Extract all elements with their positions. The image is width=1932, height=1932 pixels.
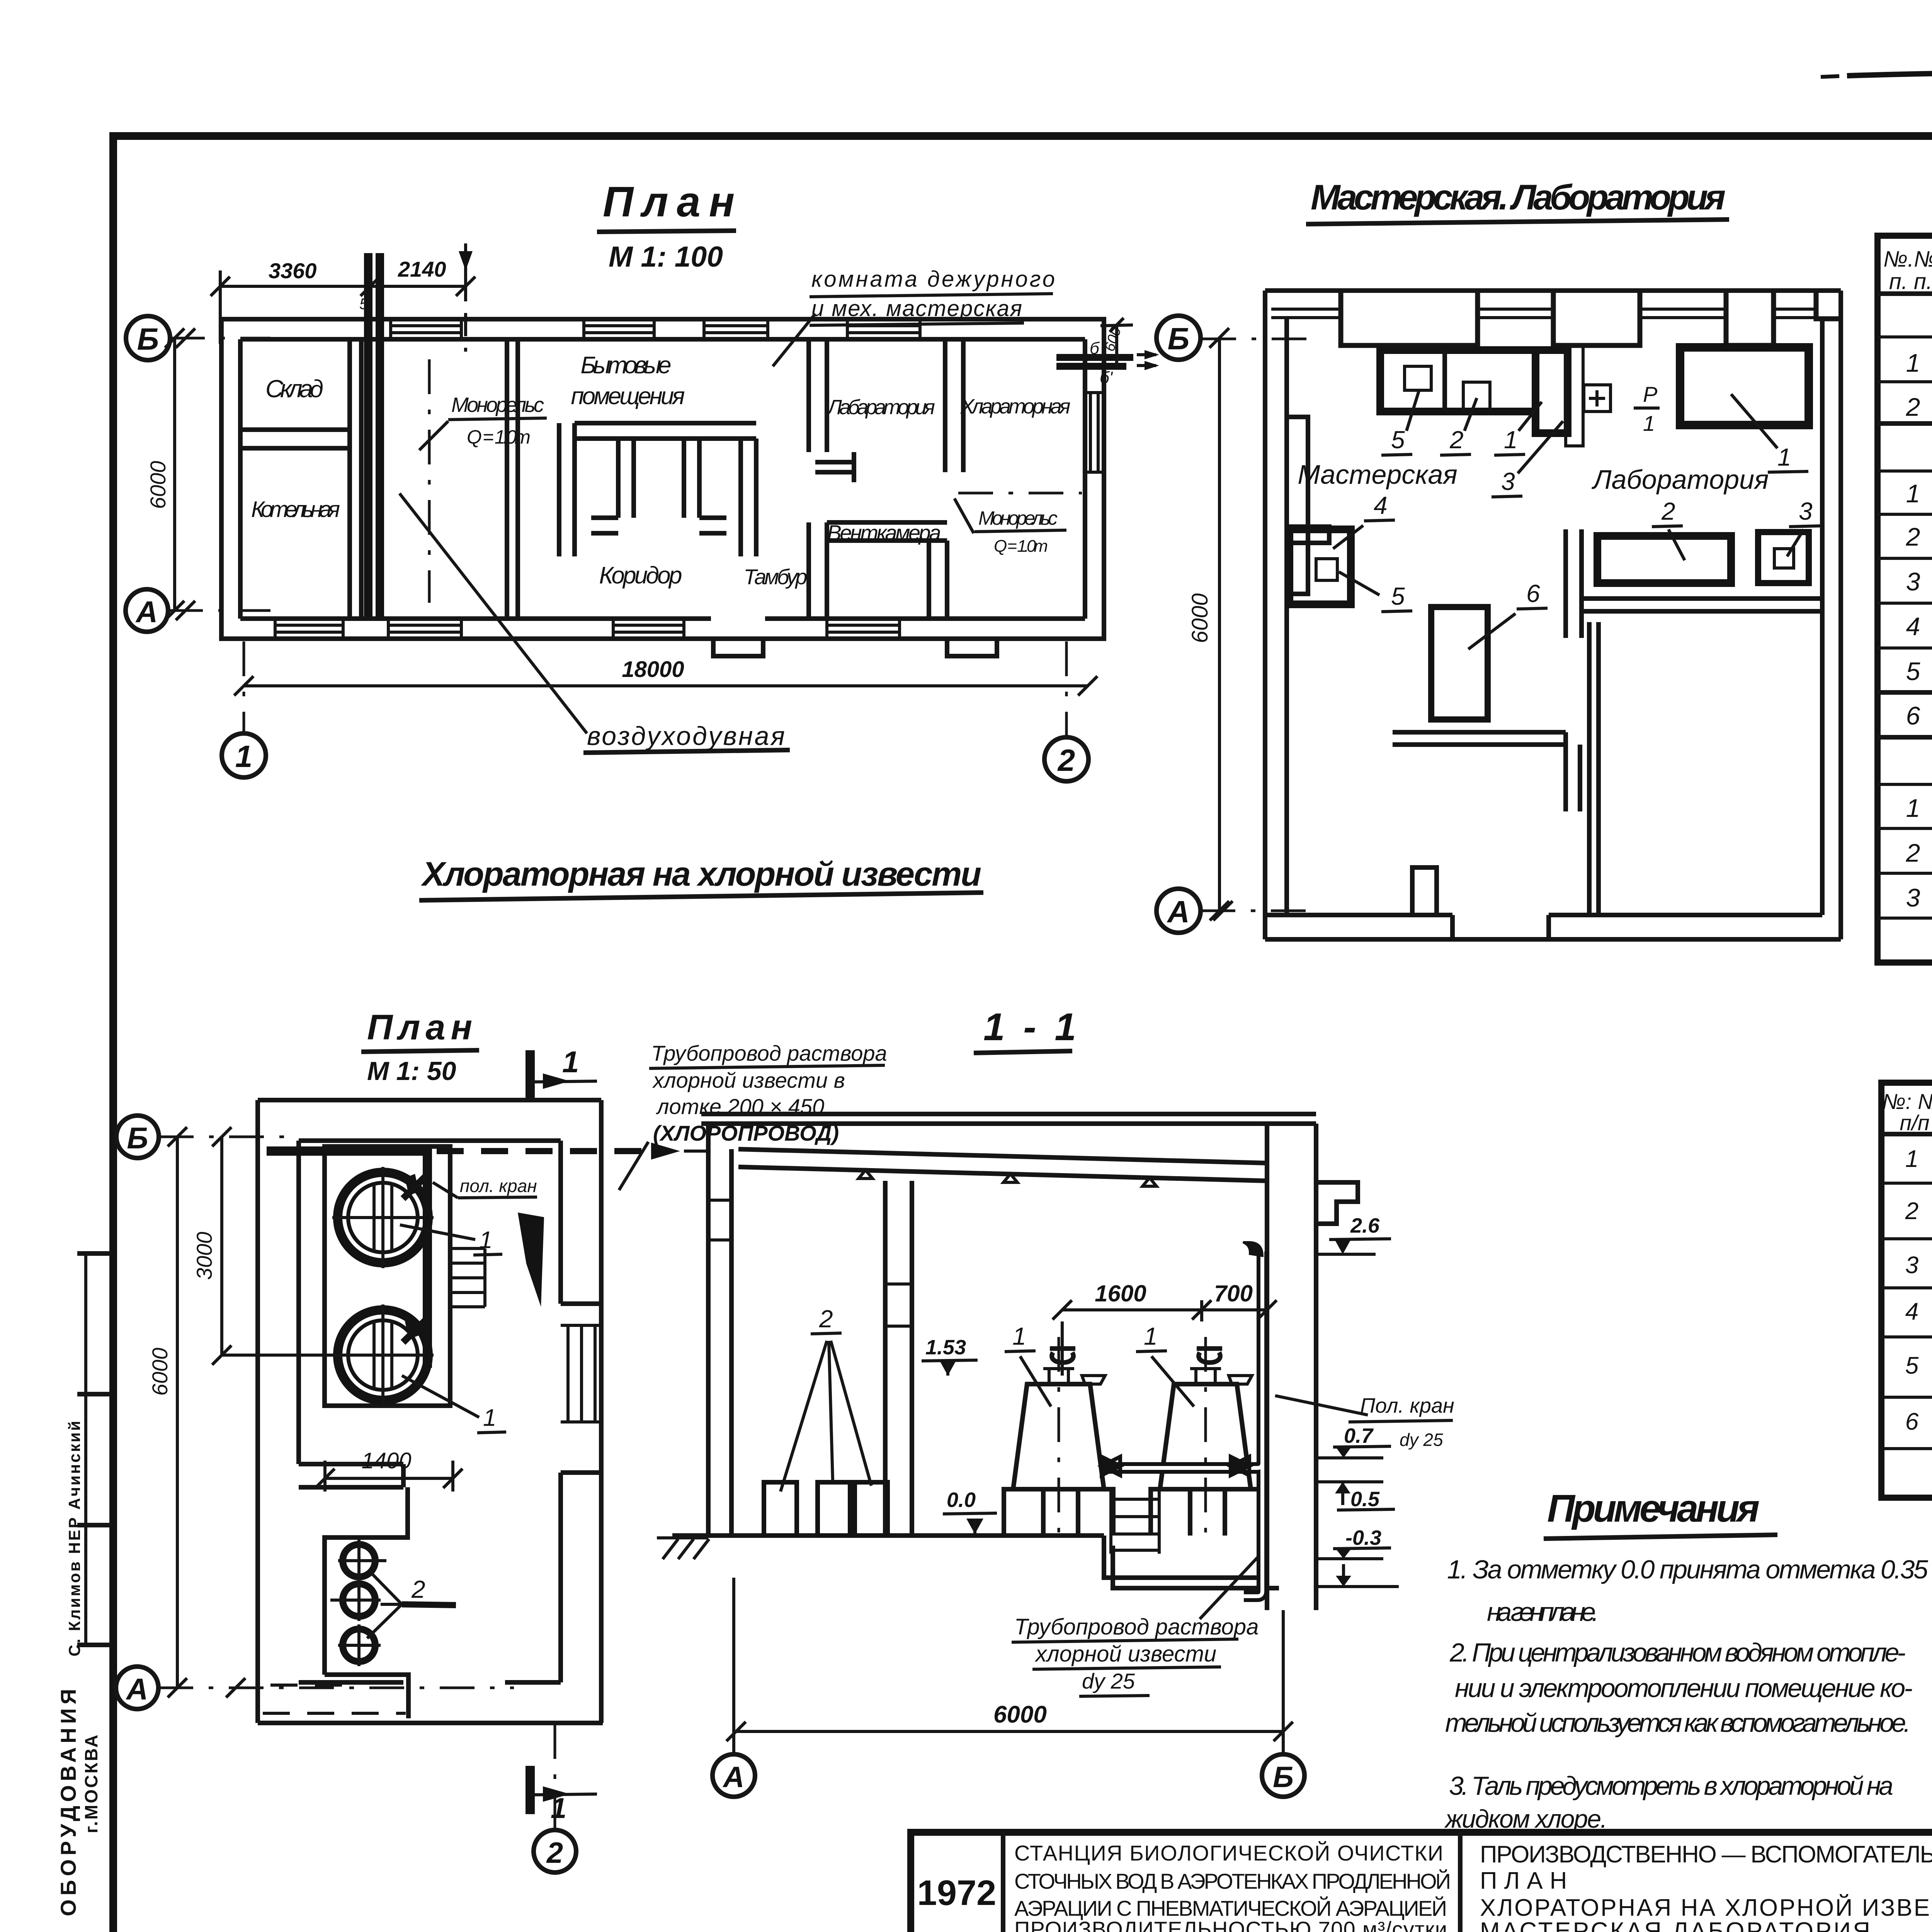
svg-text:нии и электроотоплении пом: нии и электроотоплении помещение ко- xyxy=(1455,1673,1913,1703)
svg-text:2: 2 xyxy=(1906,838,1920,867)
axis A circle xyxy=(1156,889,1201,933)
top wall xyxy=(258,1100,601,1141)
svg-text:1: 1 xyxy=(1777,443,1791,471)
svg-text:1: 1 xyxy=(551,1792,566,1824)
svg-text:1: 1 xyxy=(483,1405,496,1431)
left wall xyxy=(708,1124,731,1536)
svg-text:б: б xyxy=(1090,339,1100,358)
svg-text:хлорной извести в: хлорной извести в xyxy=(652,1068,845,1092)
svg-text:4: 4 xyxy=(1905,1298,1918,1325)
entrance porches xyxy=(713,639,763,656)
svg-text:Мастерская: Мастерская xyxy=(1298,459,1458,490)
horizontals xyxy=(1881,1132,1932,1136)
svg-text:СТАНЦИЯ БИОЛОГИЧЕСКОЙ ОЧИСТК: СТАНЦИЯ БИОЛОГИЧЕСКОЙ ОЧИСТКИ xyxy=(1014,1841,1443,1865)
mid wall xyxy=(299,1464,403,1487)
svg-text:А: А xyxy=(1167,895,1190,929)
dim 1600 700 xyxy=(1062,1308,1267,1311)
svg-text:№.№: №.№ xyxy=(1883,247,1932,272)
tank 1 top fittings xyxy=(1043,1369,1074,1384)
svg-text:1: 1 xyxy=(1643,411,1655,435)
svg-text:2: 2 xyxy=(411,1575,425,1603)
top wall windows xyxy=(391,321,920,338)
lab table 2 xyxy=(1597,536,1731,583)
building inner wall lines xyxy=(240,337,1085,342)
svg-text:ПРОИЗВОДИТЕЛЬНОСТЬЮ 700 м³/: ПРОИЗВОДИТЕЛЬНОСТЬЮ 700 м³/сутки xyxy=(1014,1917,1447,1932)
axis circles xyxy=(732,1578,735,1754)
svg-text:Трубопровод раствора: Трубопровод раствора xyxy=(1014,1614,1259,1639)
tank 2 xyxy=(338,1310,428,1400)
top smudge xyxy=(1847,72,1932,78)
svg-text:6: 6 xyxy=(1906,701,1920,730)
svg-text:3: 3 xyxy=(1905,1252,1918,1279)
steps between pedestals xyxy=(1111,1490,1159,1554)
masterskaya bottom wall xyxy=(1393,732,1566,745)
svg-text:Примечания: Примечания xyxy=(1547,1487,1760,1530)
svg-text:Тамбур: Тамбур xyxy=(744,565,808,589)
window in right wall xyxy=(1087,393,1102,472)
section flag 1 bottom xyxy=(526,1766,535,1814)
svg-text:Q = 1.0т: Q = 1.0т xyxy=(467,426,531,448)
axis B xyxy=(116,1116,159,1158)
section flag 1 top xyxy=(526,1050,535,1099)
interior column xyxy=(885,1181,912,1536)
svg-text:А: А xyxy=(723,1761,745,1794)
svg-text:3: 3 xyxy=(1799,497,1813,525)
svg-text:3. Таль предусмотреть в: 3. Таль предусмотреть в хлораторной на xyxy=(1449,1771,1893,1801)
right axis B circle xyxy=(1156,316,1201,360)
svg-text:А: А xyxy=(135,595,158,629)
svg-text:6000: 6000 xyxy=(148,1348,172,1396)
window right wall lower xyxy=(561,1325,601,1422)
svg-text:СТОЧНЫХ ВОД В АЭРОТЕНКАХ ПР: СТОЧНЫХ ВОД В АЭРОТЕНКАХ ПРОДЛЕННОЙ xyxy=(1014,1869,1451,1893)
svg-text:1: 1 xyxy=(1906,794,1920,822)
wall above ventkamera xyxy=(827,522,947,541)
outer walls xyxy=(1265,288,1841,293)
axis A xyxy=(116,1667,158,1709)
vertical dim 6000 xyxy=(1218,338,1221,911)
svg-text:6000: 6000 xyxy=(1187,593,1213,643)
equipment: verstak xyxy=(1380,350,1536,412)
riser pipes section flag 5 xyxy=(368,253,380,617)
svg-text:1600: 1600 xyxy=(1095,1281,1146,1306)
valves on pipe xyxy=(1102,1457,1120,1475)
svg-text:МАСТЕРСКАЯ ЛАБОРАТОРИ: МАСТЕРСКАЯ ЛАБОРАТОРИЯ xyxy=(1480,1918,1870,1932)
dim 6000 xyxy=(736,1730,1283,1733)
right wall xyxy=(1267,1124,1316,1610)
bottom wall xyxy=(1265,937,1841,942)
svg-text:2140: 2140 xyxy=(398,257,446,281)
svg-text:Q = 1.0т: Q = 1.0т xyxy=(994,537,1048,556)
grid circle 2 xyxy=(554,1724,556,1830)
svg-text:6000: 6000 xyxy=(146,461,170,509)
tank 1 trapezoid xyxy=(1013,1384,1104,1489)
tanks platform xyxy=(325,1146,450,1406)
svg-text:Хлораторная на хлорной из: Хлораторная на хлорной извести xyxy=(420,855,981,893)
svg-text:г.МОСКВА: г.МОСКВА xyxy=(81,1733,101,1833)
svg-text:ХЛОРАТОРНАЯ НА ХЛОРНОЙ: ХЛОРАТОРНАЯ НА ХЛОРНОЙ ИЗВЕСТИ xyxy=(1480,1894,1932,1921)
dim 3360 / 2140 xyxy=(220,285,466,288)
svg-text:№: №:: №: №: xyxy=(1882,1089,1932,1114)
svg-text:1.53: 1.53 xyxy=(925,1336,966,1359)
svg-text:2: 2 xyxy=(819,1305,833,1333)
svg-text:0.7: 0.7 xyxy=(1344,1424,1374,1447)
svg-text:2. При централизованном вод: 2. При централизованном водяном отопле- xyxy=(1449,1638,1906,1667)
grid line 2 xyxy=(1065,641,1068,737)
tank 1 centerline xyxy=(1058,1337,1060,1533)
top wall piers xyxy=(1341,291,1841,345)
svg-text:6000: 6000 xyxy=(993,1701,1047,1728)
svg-text:4: 4 xyxy=(1374,492,1388,519)
svg-text:п/п: п/п xyxy=(1900,1111,1929,1135)
dashed continuation right with arrow xyxy=(437,1148,657,1154)
svg-text:6: 6 xyxy=(1905,1408,1919,1435)
svg-text:комната дежурного: комната дежурного xyxy=(811,267,1055,292)
svg-text:18000: 18000 xyxy=(622,657,684,682)
svg-text:1: 1 xyxy=(235,739,253,774)
svg-text:М 1: 50: М 1: 50 xyxy=(367,1056,456,1086)
barrels xyxy=(764,1482,888,1536)
tank 2 trapezoid xyxy=(1160,1384,1251,1489)
tank 1 xyxy=(338,1172,428,1263)
barrels xyxy=(343,1544,375,1662)
svg-text:Б: Б xyxy=(137,322,159,356)
svg-text:Венткамера: Венткамера xyxy=(827,520,941,545)
bottom wall xyxy=(258,1682,603,1723)
svg-text:3: 3 xyxy=(1501,468,1515,495)
svg-text:п. п.: п. п. xyxy=(1889,269,1932,294)
svg-text:Коридор: Коридор xyxy=(599,562,682,589)
svg-text:б': б' xyxy=(1100,368,1113,387)
svg-text:Монорельс: Монорельс xyxy=(978,507,1058,529)
svg-text:хлорной извести: хлорной извести xyxy=(1034,1641,1216,1667)
svg-text:5: 5 xyxy=(1905,1352,1919,1379)
dim 18000 xyxy=(244,684,1088,687)
svg-text:1: 1 xyxy=(1906,479,1920,508)
toilets block walls xyxy=(559,423,756,556)
plus box xyxy=(1584,385,1611,412)
svg-text:Лаборатория: Лаборатория xyxy=(1592,464,1769,495)
vertical dims xyxy=(220,1137,223,1355)
svg-text:700: 700 xyxy=(1214,1281,1253,1306)
svg-text:1: 1 xyxy=(1012,1322,1026,1350)
svg-text:и мех. мастерская: и мех. мастерская xyxy=(811,296,1022,321)
interior wall B (right of vozduhoduvnaya) xyxy=(507,339,518,619)
svg-text:1: 1 xyxy=(1906,349,1920,377)
svg-text:А: А xyxy=(126,1672,148,1706)
svg-text:Б: Б xyxy=(1273,1761,1294,1794)
svg-text:2: 2 xyxy=(1057,743,1075,777)
svg-text:1: 1 xyxy=(1905,1146,1918,1172)
svg-text:2.6: 2.6 xyxy=(1350,1214,1380,1237)
svg-text:3000: 3000 xyxy=(192,1232,216,1280)
svg-text:2: 2 xyxy=(1906,522,1920,551)
svg-text:ПЛАН: ПЛАН xyxy=(1480,1867,1574,1894)
pit xyxy=(1104,1536,1267,1578)
left margin stamp xyxy=(56,1253,111,1916)
svg-text:План: План xyxy=(367,1008,478,1047)
svg-text:dy 25: dy 25 xyxy=(1400,1430,1443,1450)
pipe runs xyxy=(267,1151,427,1368)
svg-text:жидком хлоре.: жидком хлоре. xyxy=(1444,1804,1607,1833)
svg-text:dy 25: dy 25 xyxy=(1082,1669,1135,1693)
svg-text:План: План xyxy=(603,178,743,226)
axis B left xyxy=(126,316,170,360)
interior wall between masterskaya and laboratoriya xyxy=(1566,529,1582,638)
svg-text:0.0: 0.0 xyxy=(947,1488,976,1512)
svg-text:0.5: 0.5 xyxy=(1350,1488,1380,1511)
svg-text:ПРОИЗВОДСТВЕННО — ВСПОМОГАТЕ: ПРОИЗВОДСТВЕННО — ВСПОМОГАТЕЛЬНОЕ ЗДАНИЕ xyxy=(1480,1841,1932,1868)
grid line 1 xyxy=(243,641,245,733)
svg-text:Ачинский: Ачинский xyxy=(65,1419,83,1510)
svg-text:на генплане.: на генплане. xyxy=(1487,1597,1599,1627)
right cornice xyxy=(1316,1182,1358,1224)
svg-text:пол. кран: пол. кран xyxy=(460,1176,537,1196)
pipes xyxy=(1107,1252,1262,1596)
svg-text:1: 1 xyxy=(1144,1322,1158,1350)
svg-text:5: 5 xyxy=(359,296,368,313)
black wedge xyxy=(518,1213,544,1307)
valves xyxy=(405,1174,419,1196)
svg-text:3: 3 xyxy=(1906,567,1920,596)
roof slab xyxy=(738,1149,1267,1163)
svg-text:2: 2 xyxy=(1449,426,1464,454)
svg-text:Б: Б xyxy=(1168,321,1190,356)
svg-text:2: 2 xyxy=(1905,1198,1918,1225)
table frame xyxy=(1878,236,1932,963)
labels 1 to tanks xyxy=(400,1225,475,1240)
svg-text:1 - 1: 1 - 1 xyxy=(983,1005,1080,1049)
svg-text:Мастерская. Лаборатория: Мастерская. Лаборатория xyxy=(1311,178,1726,217)
vent arrow at 1205 xyxy=(464,243,467,352)
tambur left wall xyxy=(809,522,827,619)
svg-text:Пол. кран: Пол. кран xyxy=(1360,1394,1454,1417)
svg-text:1972: 1972 xyxy=(917,1873,997,1913)
interior wall A (right of sklad/kotelnaya) xyxy=(350,339,361,619)
bottom wall pier stub xyxy=(1412,867,1437,915)
laboratory left wall xyxy=(809,339,827,452)
svg-text:Монорельс: Монорельс xyxy=(451,393,544,417)
right wall lower xyxy=(561,1304,601,1723)
chlorator left wall top xyxy=(945,339,963,472)
svg-text:Склад: Склад xyxy=(265,375,323,403)
wall under laboratoriya xyxy=(1582,599,1822,611)
svg-text:3360: 3360 xyxy=(269,259,317,283)
monorail dash line vozduhoduvnaya xyxy=(428,359,431,603)
interior wall: sklad/kotelnaya divider xyxy=(240,430,350,448)
svg-text:Б: Б xyxy=(127,1121,148,1155)
svg-text:5: 5 xyxy=(1906,657,1920,685)
svg-text:М 1: 100: М 1: 100 xyxy=(609,240,723,273)
axis A left xyxy=(126,589,168,632)
svg-text:1: 1 xyxy=(562,1045,579,1079)
equipment: item 1 tall xyxy=(1536,350,1568,433)
dim 1400 xyxy=(325,1477,453,1480)
right side arrows xyxy=(1056,357,1133,366)
barrel room xyxy=(325,1487,408,1675)
svg-text:2: 2 xyxy=(1906,393,1920,421)
svg-text:Котельная: Котельная xyxy=(251,497,340,522)
svg-text:6: 6 xyxy=(1526,580,1540,607)
ground hatch left xyxy=(657,1536,708,1539)
monorail dash line chlorator xyxy=(958,492,1082,495)
ladder xyxy=(450,1248,485,1307)
svg-text:2: 2 xyxy=(546,1837,563,1869)
svg-text:Р: Р xyxy=(1643,382,1657,406)
ventkamera/chlorator divider bottom xyxy=(929,541,947,619)
svg-text:Трубопровод раствора: Трубопровод раствора xyxy=(651,1041,887,1065)
svg-text:Лабаратория: Лабаратория xyxy=(827,396,935,419)
svg-text:Хлараторная: Хлараторная xyxy=(960,395,1071,418)
svg-text:5: 5 xyxy=(1391,426,1405,454)
svg-text:1: 1 xyxy=(1504,426,1518,454)
roof double line xyxy=(701,1114,1316,1124)
svg-text:1. За отметку 0.0 принята: 1. За отметку 0.0 принята отметка 0.35 xyxy=(1447,1555,1928,1584)
svg-text:3: 3 xyxy=(1906,883,1920,912)
svg-text:1400: 1400 xyxy=(361,1448,411,1473)
svg-text:5: 5 xyxy=(1391,582,1405,610)
svg-text:-0.3: -0.3 xyxy=(1345,1526,1381,1549)
horizontal lines xyxy=(1878,291,1932,296)
svg-text:помещения: помещения xyxy=(571,383,685,410)
stol-podstavka 4 xyxy=(1289,529,1351,604)
svg-text:1: 1 xyxy=(479,1227,492,1253)
top wall windows xyxy=(1271,309,1816,318)
svg-text:2: 2 xyxy=(1661,497,1675,525)
svg-text:Бытовые: Бытовые xyxy=(581,352,672,379)
desk 6 xyxy=(1431,607,1488,719)
pedestals xyxy=(1004,1489,1113,1536)
bottom wall windows xyxy=(275,621,900,637)
left wall pilaster xyxy=(1287,527,1329,543)
label 2 barrels xyxy=(369,1571,402,1604)
right wall upper xyxy=(561,1100,601,1304)
building outer walls xyxy=(221,319,1104,639)
left wall xyxy=(258,1100,299,1723)
svg-text:ОБОРУДОВАНИЯ: ОБОРУДОВАНИЯ xyxy=(56,1685,80,1916)
frame xyxy=(1881,1083,1932,1498)
svg-text:тельной используется как в: тельной используется как вспомогательное… xyxy=(1445,1708,1911,1738)
floor xyxy=(672,1533,1104,1538)
svg-text:С. Климов НЕР: С. Климов НЕР xyxy=(65,1516,83,1656)
6000 dim left xyxy=(173,338,176,611)
square 3 with weights table xyxy=(1758,532,1809,583)
lab table top right (1) xyxy=(1680,347,1809,425)
svg-text:4: 4 xyxy=(1906,612,1920,641)
